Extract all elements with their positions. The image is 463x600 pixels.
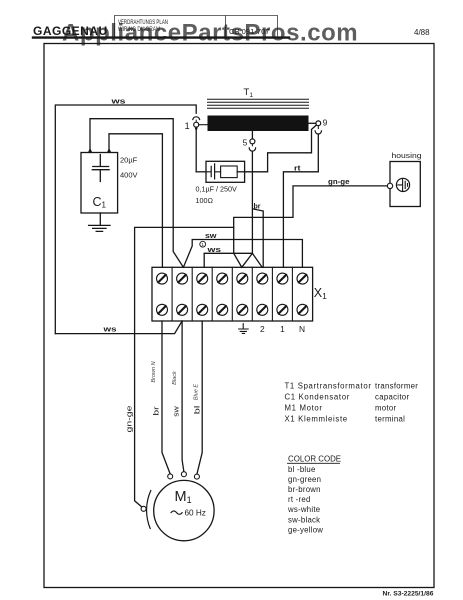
svg-text:Nr. S3-2225/1/86: Nr. S3-2225/1/86 bbox=[383, 591, 434, 598]
wire br transformer tap 5 down to terminal blocks 5 and 6 bbox=[252, 151, 263, 267]
wire C1 right to terminal block 1 bbox=[109, 134, 162, 267]
terminal 9 connector arc bbox=[317, 126, 319, 129]
border frame bbox=[44, 44, 434, 588]
svg-text:gn-green: gn-green bbox=[288, 475, 321, 484]
ground below C1 bbox=[89, 213, 110, 231]
svg-text:capacitor: capacitor bbox=[375, 393, 409, 402]
svg-text:400V: 400V bbox=[120, 171, 138, 180]
snubber box bbox=[206, 161, 245, 182]
wire gn-ge housing to motor frame bbox=[135, 186, 388, 507]
svg-text:COLOR CODE: COLOR CODE bbox=[288, 454, 341, 463]
svg-text:rt: rt bbox=[294, 165, 301, 172]
wire C1 left to terminal block 2 bbox=[90, 119, 183, 268]
motor terminal top 3 bbox=[194, 474, 199, 479]
screws row bottom bbox=[157, 304, 309, 315]
terminal 9 circle bbox=[316, 121, 321, 126]
svg-text:br-brown: br-brown bbox=[288, 485, 321, 494]
motor terminal left bbox=[141, 506, 146, 511]
wire sw terminal block 8 to terminal block 2 bbox=[183, 240, 302, 268]
snubber left lead bbox=[196, 171, 206, 173]
housing box bbox=[390, 162, 420, 207]
svg-text:T1: T1 bbox=[244, 87, 254, 99]
earth symbol under terminal 5 bbox=[239, 324, 249, 334]
svg-text:Blue E: Blue E bbox=[194, 384, 200, 401]
svg-text:100Ω: 100Ω bbox=[196, 196, 214, 205]
wire rt terminal 9 to terminal block 7 bbox=[283, 134, 318, 267]
terminal 1 connector arc bbox=[193, 117, 200, 120]
terminal 5 stem bbox=[251, 131, 253, 139]
svg-text:ws: ws bbox=[110, 99, 126, 106]
svg-text:Black: Black bbox=[172, 371, 178, 385]
motor M1 circle bbox=[154, 480, 214, 540]
title block box bbox=[115, 16, 278, 37]
svg-text:ws-white: ws-white bbox=[287, 505, 320, 514]
svg-text:C1: C1 bbox=[93, 195, 107, 210]
screws row top bbox=[157, 273, 309, 284]
svg-text:sw: sw bbox=[174, 405, 181, 417]
motor terminal top 2 bbox=[181, 472, 186, 477]
svg-text:Brown N: Brown N bbox=[151, 361, 157, 382]
svg-text:transformer: transformer bbox=[375, 382, 418, 391]
svg-text:br: br bbox=[154, 406, 161, 416]
motor frame arc bbox=[147, 491, 151, 529]
svg-text:4/88: 4/88 bbox=[414, 28, 430, 37]
wire bl terminal block 3 to motor bbox=[197, 321, 202, 474]
svg-text:X1: X1 bbox=[314, 286, 327, 301]
wire bar to terminal 9 bbox=[309, 122, 316, 124]
svg-text:C1 Kondensator: C1 Kondensator bbox=[285, 393, 350, 402]
resistor box in snubber bbox=[221, 166, 238, 178]
svg-text:ws: ws bbox=[102, 327, 117, 334]
terminal 5 connector arc bbox=[251, 144, 253, 146]
svg-text:AppliancePartsPros.com: AppliancePartsPros.com bbox=[62, 20, 358, 47]
transformer T1 winding bar bbox=[208, 116, 309, 132]
svg-text:2: 2 bbox=[260, 324, 265, 334]
svg-text:gn-ge: gn-ge bbox=[328, 179, 350, 186]
terminal strip dividers bbox=[172, 267, 292, 321]
C1 entry wedge left bbox=[88, 148, 93, 153]
svg-text:bl: bl bbox=[195, 405, 202, 414]
snubber right lead bbox=[237, 171, 244, 173]
svg-text:1: 1 bbox=[280, 324, 285, 334]
wire ws top (terminal block 2 to transformer terminal 1) bbox=[55, 105, 196, 334]
svg-text:br: br bbox=[254, 204, 261, 211]
svg-text:T1 Spartransformator: T1 Spartransformator bbox=[285, 382, 372, 391]
header rule bbox=[33, 36, 289, 38]
connector mark circle 1 bbox=[200, 241, 206, 247]
svg-text:N: N bbox=[299, 324, 305, 334]
svg-text:rt -red: rt -red bbox=[288, 495, 311, 504]
wire br terminal block 1 to motor bbox=[162, 321, 170, 474]
svg-text:M1 Motor: M1 Motor bbox=[285, 404, 323, 413]
capacitor symbol in snubber bbox=[206, 164, 221, 179]
terminal 1 circle bbox=[195, 120, 197, 122]
wire terminal 9 to snubber (upper jog) bbox=[245, 125, 317, 172]
svg-text:gn-ge: gn-ge bbox=[127, 405, 134, 432]
wire terminal 1 down to snubber bbox=[195, 128, 198, 132]
wire ws terminal block 3 to terminal blocks 5 and 6 bbox=[204, 253, 262, 267]
terminal 5 circle bbox=[250, 139, 255, 144]
svg-text:sw: sw bbox=[205, 233, 217, 240]
wire branch gn-ge to terminal block (ws junction) bbox=[234, 227, 242, 267]
wire terminal 1 to bar bbox=[199, 124, 208, 126]
svg-text:ws: ws bbox=[206, 247, 221, 254]
svg-text:0,1µF / 250V: 0,1µF / 250V bbox=[196, 185, 238, 194]
svg-text:5: 5 bbox=[243, 138, 248, 148]
svg-text:9: 9 bbox=[323, 118, 328, 128]
svg-text:sw-black: sw-black bbox=[288, 515, 320, 524]
svg-text:bl -blue: bl -blue bbox=[288, 465, 316, 474]
motor terminal top 1 bbox=[168, 474, 173, 479]
svg-text:X1 Klemmleiste: X1 Klemmleiste bbox=[285, 415, 348, 424]
terminal strip X1 body bbox=[152, 267, 313, 321]
C1 entry wedge right bbox=[107, 148, 112, 153]
svg-text:1: 1 bbox=[185, 121, 190, 131]
svg-text:1: 1 bbox=[201, 242, 204, 247]
svg-text:M1: M1 bbox=[175, 489, 192, 505]
svg-text:20µF: 20µF bbox=[120, 156, 138, 165]
protective earth symbol in housing bbox=[396, 178, 409, 191]
transformer T1 core lines bbox=[208, 99, 309, 108]
svg-text:housing: housing bbox=[392, 151, 422, 160]
sine symbol bbox=[171, 511, 182, 514]
capacitor C1 symbol bbox=[92, 155, 109, 182]
capacitor C1 box bbox=[81, 153, 118, 214]
wire sw terminal block 2 to motor bbox=[182, 321, 184, 472]
svg-text:motor: motor bbox=[375, 404, 397, 413]
svg-text:60 Hz: 60 Hz bbox=[185, 509, 206, 518]
svg-text:terminal: terminal bbox=[375, 415, 405, 424]
svg-text:ge-yellow: ge-yellow bbox=[288, 525, 323, 534]
housing terminal circle bbox=[387, 183, 392, 188]
wire ws bottom run bbox=[55, 321, 182, 334]
